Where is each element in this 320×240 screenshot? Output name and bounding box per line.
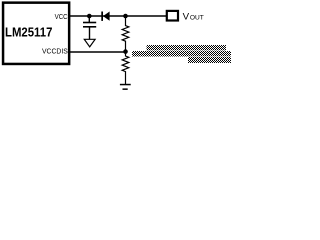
ground earth bars <box>120 84 131 90</box>
redacted text bar 2 <box>132 51 231 57</box>
terminal VOUT square <box>167 11 178 21</box>
node junction VCCDIS/divider <box>123 49 128 54</box>
wire cap lead down <box>88 16 90 22</box>
resistor R1 <box>122 16 129 52</box>
label VOUT <box>183 11 204 21</box>
ground analog open triangle <box>84 39 95 47</box>
wire VCC pin to VOUT terminal <box>70 15 167 17</box>
svg-text:VCCDIS: VCCDIS <box>42 48 68 56</box>
resistor R2 <box>122 52 129 84</box>
svg-text:OUT: OUT <box>190 15 204 22</box>
IC U1 box <box>3 3 69 64</box>
capacitor C1 <box>83 22 96 40</box>
redacted text bar 1 <box>147 45 227 51</box>
redacted text bar 3 <box>188 57 231 63</box>
svg-text:VCC: VCC <box>55 14 68 21</box>
node junction divider top <box>123 14 128 19</box>
node junction VCC/cap <box>87 14 92 19</box>
diode D1 (cathode left) <box>101 12 109 21</box>
svg-text:LM25117: LM25117 <box>5 25 52 40</box>
wire VCCDIS pin to divider <box>70 51 126 53</box>
